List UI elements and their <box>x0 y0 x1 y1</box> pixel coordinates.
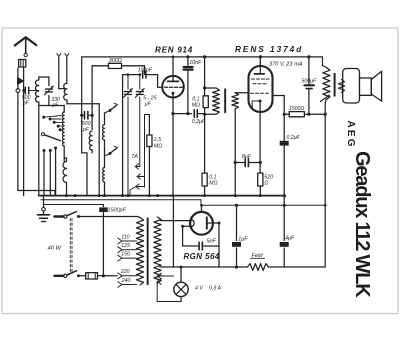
wire output return <box>324 205 326 267</box>
tube REN 914 <box>162 76 184 98</box>
ground <box>43 196 45 208</box>
transformer core <box>147 218 149 286</box>
svg-text:1μF: 1μF <box>238 237 248 243</box>
cathode <box>172 92 175 95</box>
capacitor 500pF antenna <box>22 89 25 92</box>
capacitor 1uF <box>236 205 238 240</box>
grid dashes <box>165 86 168 88</box>
wave switch wiper <box>41 133 44 136</box>
resistor 0.1M lower <box>202 173 207 186</box>
svg-text:MΩ: MΩ <box>192 103 200 109</box>
svg-text:0,2μF: 0,2μF <box>192 119 206 125</box>
svg-text:Geadux 112 WLK: Geadux 112 WLK <box>351 151 373 298</box>
svg-text:REN 914: REN 914 <box>155 46 193 55</box>
wire screen feed <box>273 95 285 97</box>
wire bus to bottom <box>172 196 174 267</box>
secondary HT bottom lead <box>160 266 237 268</box>
coil band L2 <box>103 168 105 183</box>
cathode dot <box>259 100 262 103</box>
svg-text:125: 125 <box>121 243 130 249</box>
svg-text:μF: μF <box>144 102 152 108</box>
transformer primary <box>137 217 140 218</box>
switch contact <box>108 109 111 112</box>
svg-text:MΩ: MΩ <box>209 181 217 187</box>
AF transformer core <box>224 89 226 114</box>
lightning arrester <box>18 78 24 85</box>
wire <box>66 100 68 104</box>
antenna <box>15 37 37 45</box>
tap across <box>321 95 330 102</box>
resistor 1500 Ohm <box>283 113 286 116</box>
svg-text:220: 220 <box>120 269 130 275</box>
switch contact <box>108 152 111 155</box>
speaker body <box>343 69 360 104</box>
svg-text:100pF: 100pF <box>138 68 153 74</box>
anode plate <box>168 80 179 82</box>
coil lower section <box>63 162 67 183</box>
node plate rail <box>172 56 175 59</box>
trimmer capacitor padding <box>127 75 129 89</box>
AF transformer primary <box>205 87 216 89</box>
wire trimmer rail <box>122 75 124 196</box>
wire earth lead <box>17 68 19 77</box>
coil band L1 <box>103 125 105 141</box>
fuse <box>86 273 98 279</box>
top cap lead <box>259 57 261 74</box>
RF coil assembly <box>81 115 83 153</box>
svg-text:pF: pF <box>82 127 90 133</box>
capacitor 8uF <box>234 161 237 164</box>
resistor 0.1M upper <box>204 88 206 96</box>
capacitor 0.2uF cathode <box>193 110 195 118</box>
svg-text:150: 150 <box>121 252 130 258</box>
speaker horn <box>371 71 381 101</box>
capacitor 500pF coupling <box>80 114 83 117</box>
antenna socket <box>19 60 26 68</box>
svg-text:2,5: 2,5 <box>153 137 161 143</box>
capacitor 10nF <box>186 55 189 58</box>
speaker core <box>334 73 336 97</box>
wire antenna lead <box>23 67 25 196</box>
tube RENS 1374d <box>249 66 273 112</box>
svg-text:7A: 7A <box>131 154 138 160</box>
wire plate load <box>173 56 323 58</box>
resistor 2.5M grid leak <box>148 115 150 136</box>
svg-text:370 V, 23 mA: 370 V, 23 mA <box>269 62 303 68</box>
capacitor 5nF <box>183 226 198 246</box>
main bus <box>39 195 285 197</box>
wire <box>144 66 146 75</box>
svg-text:1500Ω: 1500Ω <box>289 106 305 112</box>
aerial terminal fork 2 <box>65 54 69 57</box>
wire top rail corner <box>82 57 173 115</box>
svg-text:300Ω: 300Ω <box>109 58 122 64</box>
svg-text:RGN 564: RGN 564 <box>184 252 220 261</box>
cathode bias network <box>171 112 174 115</box>
capacitor 0.2uF screen <box>280 141 289 146</box>
svg-text:RENS 1374d: RENS 1374d <box>235 45 303 54</box>
svg-text:4 V: 4 V <box>195 286 203 292</box>
coil tapped <box>62 112 64 146</box>
wire <box>98 104 100 196</box>
capacitor 100pF grid <box>142 71 144 78</box>
trimmer capacitor 5-25 <box>139 75 141 89</box>
wire ground feeder <box>44 204 104 206</box>
svg-text:4μF: 4μF <box>285 236 295 242</box>
tap dots <box>42 116 45 119</box>
mains switch lower <box>55 275 64 277</box>
svg-text:500μF: 500μF <box>302 79 317 85</box>
tube RGN 564 <box>190 212 213 235</box>
mains switch upper <box>55 215 64 217</box>
grid dashes <box>252 78 255 80</box>
svg-text:pF: pF <box>22 101 30 107</box>
secondary top lead <box>160 220 176 222</box>
transformer secondary <box>154 217 161 283</box>
bus second <box>41 199 201 201</box>
anode bar <box>206 217 208 228</box>
svg-text:10nF: 10nF <box>189 60 202 66</box>
svg-text:8μF: 8μF <box>242 154 252 160</box>
svg-text:0,2μF: 0,2μF <box>287 135 301 141</box>
filament leads <box>176 220 191 222</box>
svg-text:1500pF: 1500pF <box>108 208 127 214</box>
svg-text:0,3 A: 0,3 A <box>209 286 221 292</box>
lamp 4V 0.3A <box>180 267 182 282</box>
capacitor 4uF <box>283 196 285 241</box>
resistor 300 Ohm <box>92 65 144 67</box>
svg-text:AEG: AEG <box>345 121 356 149</box>
coil frame aerial <box>59 88 65 90</box>
wire grid lead <box>158 75 164 88</box>
svg-text:110: 110 <box>121 235 129 241</box>
speaker coil <box>339 80 345 93</box>
wire inner corner <box>92 66 144 115</box>
capacitor 1500pF <box>102 205 104 207</box>
AF transformer secondary <box>232 93 239 109</box>
svg-text:MΩ: MΩ <box>154 144 162 150</box>
pickup wires <box>43 149 46 152</box>
antenna tank coil <box>35 80 38 102</box>
aerial terminal fork 1 <box>57 54 61 57</box>
speaker driver <box>360 78 372 95</box>
electrolytic 500uF <box>307 55 310 58</box>
resistor 520 Ohm <box>258 173 263 186</box>
svg-text:240: 240 <box>121 278 131 284</box>
svg-text:Ω: Ω <box>264 181 268 187</box>
heater tap leads <box>157 273 161 279</box>
filament arc <box>191 220 194 227</box>
earth terminal <box>16 89 20 93</box>
svg-text:5nF: 5nF <box>207 238 217 244</box>
speaker transformer primary <box>322 57 324 66</box>
svg-text:40 W: 40 W <box>48 245 62 251</box>
switch gang link dashed <box>69 219 71 274</box>
trimmer capacitor 330pF <box>45 88 52 90</box>
